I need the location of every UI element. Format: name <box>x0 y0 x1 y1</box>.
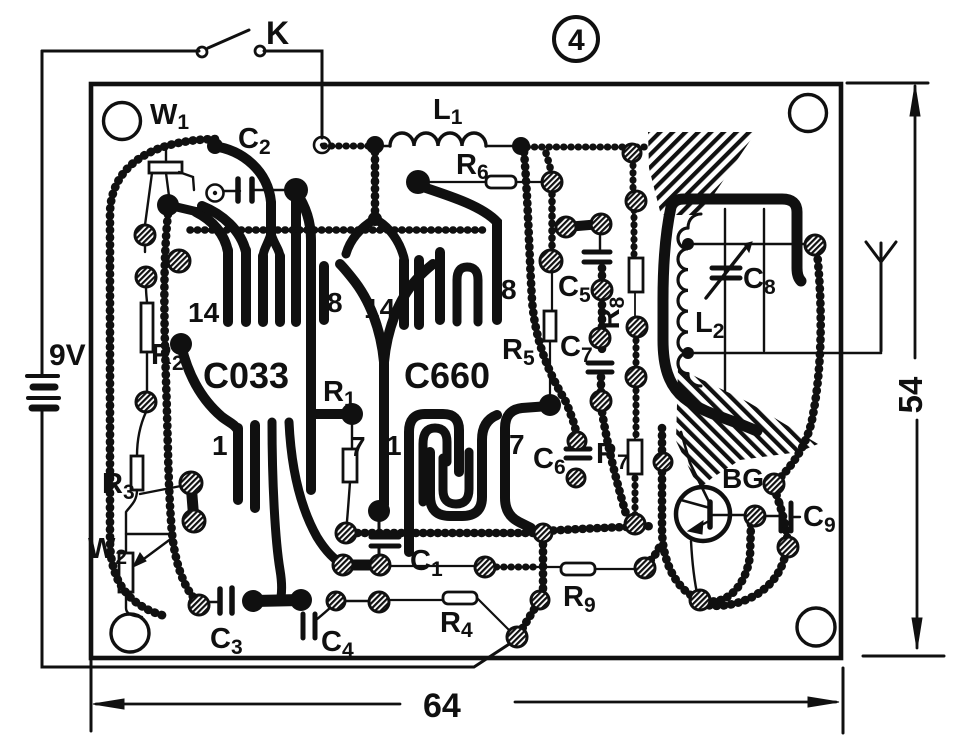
pad C2 arc start <box>207 138 223 154</box>
trace R6 pad to pin8 finger <box>420 186 497 320</box>
pad C4 elbow <box>327 592 345 610</box>
pad C5 bottom <box>592 280 612 300</box>
battery 9V <box>41 51 44 374</box>
pad R5 black <box>539 394 561 416</box>
trace Y of C660 <box>340 264 384 505</box>
svg-text:8: 8 <box>501 274 517 305</box>
pad pair C1 right <box>370 555 390 575</box>
pad R8 bottom <box>627 317 647 337</box>
pad rail top corner <box>623 144 641 162</box>
hatch fan below L2 <box>676 368 818 489</box>
capacitor C7 plates <box>588 363 612 372</box>
trace long bar between ICs <box>296 192 311 490</box>
dotted chain right edge down <box>777 252 821 481</box>
svg-text:C660: C660 <box>404 355 490 396</box>
pad C1 right junction <box>534 524 552 542</box>
svg-text:64: 64 <box>423 687 461 725</box>
svg-text:C033: C033 <box>203 355 289 396</box>
dotted BG inner U right <box>706 523 751 602</box>
wire battery bottom rail <box>42 410 517 667</box>
dotted BG inner U left <box>662 428 702 601</box>
trimmer W1 body <box>149 162 182 173</box>
svg-text:1: 1 <box>212 430 228 461</box>
dotted C5 C7 chain <box>601 268 626 514</box>
IC C033 top fingers pin14 side <box>223 250 233 322</box>
pad C6 top <box>568 432 586 450</box>
pad to pad link left mid <box>191 483 194 521</box>
trace L2 horseshoe <box>663 207 757 431</box>
trace corner at R5 pad <box>505 406 549 528</box>
pad below W1 <box>168 250 190 272</box>
transistor BG internals <box>707 502 713 527</box>
svg-text:14: 14 <box>364 293 396 324</box>
trace stub to R1 pad <box>313 409 349 419</box>
pad W1 left <box>135 225 155 245</box>
svg-text:1: 1 <box>386 430 402 461</box>
pad R1 bottom <box>336 523 356 543</box>
pad node above C660 <box>368 212 382 226</box>
pad C3 black <box>242 590 264 612</box>
pad L1 right black <box>512 137 530 155</box>
serpentine meander inner arch <box>423 428 447 502</box>
inverted U fingers <box>457 267 478 322</box>
trimmer W2 body <box>119 553 133 592</box>
pad BG base bottom <box>690 590 710 610</box>
wire battery top rail <box>42 50 199 53</box>
resistor R6 body <box>486 176 516 188</box>
circled figure number 4 <box>554 17 598 61</box>
IC C033 bottom fingers pin1 side <box>233 428 243 500</box>
pad L2 top <box>682 238 694 250</box>
pad C4 black <box>290 589 312 611</box>
pad R3 link lower <box>183 510 205 532</box>
pad below C1 chain <box>531 591 549 609</box>
mounting hole bottom-left <box>111 614 149 652</box>
pad L2 right <box>805 235 825 255</box>
coil L2 <box>678 228 688 374</box>
resistor R2 body <box>141 303 153 352</box>
thin frame around C8 <box>688 243 813 245</box>
switch K <box>197 47 207 57</box>
dotted rail top right of L1 <box>527 144 650 151</box>
resistor R9 body <box>561 563 595 575</box>
dotted BG outer arc <box>694 552 786 606</box>
dotted rail top from switch pad <box>324 143 370 150</box>
resistor R7 body <box>628 440 642 474</box>
capacitor C5 plates <box>584 252 610 262</box>
pad R2 lead <box>136 392 156 412</box>
pad C7 top <box>590 328 610 348</box>
junction fan from dotted node <box>375 219 404 258</box>
pad R3 link upper <box>180 472 202 494</box>
dotted from R9 right pad <box>645 543 661 565</box>
pad R8 top <box>626 191 646 211</box>
pad BG collector <box>745 506 765 526</box>
svg-text:7: 7 <box>350 431 366 462</box>
dotted rail mid horizontal <box>190 226 488 234</box>
serpentine meander outer arch <box>409 414 459 552</box>
pad R6 right <box>542 172 562 192</box>
capacitor C2 plates <box>238 179 252 201</box>
pad R2 black <box>170 333 192 355</box>
pad R6 left black <box>406 170 430 194</box>
pad R7 bottom <box>625 514 645 534</box>
dotted R8 line segments <box>633 158 636 518</box>
pad battery return <box>507 627 527 647</box>
coil L1 <box>390 133 486 146</box>
dotted drop from top rail <box>371 152 380 212</box>
trace dumbbell C3-C4 pads <box>253 600 301 601</box>
pad L2 bottom <box>682 347 694 359</box>
resistor R5 body <box>544 311 556 341</box>
finger left of Y <box>319 266 329 320</box>
hatch wedge top right <box>648 132 756 215</box>
pad BG chain lower <box>778 537 798 557</box>
capacitor C3 plates <box>220 588 232 613</box>
capacitor C4 plates <box>303 614 315 638</box>
PCB board outline <box>91 84 841 658</box>
dotted rail bottom mid <box>546 526 655 531</box>
pad W1 chain <box>136 267 156 287</box>
capacitor C1 plates <box>371 537 399 546</box>
resistor R3 body <box>131 456 143 490</box>
dotted link to R9 <box>489 564 540 571</box>
dotted rail under C1 <box>350 529 536 538</box>
trace C2 arc into IC fingers <box>213 146 271 236</box>
serpentine meander outer U <box>430 415 497 516</box>
dimension 54 right side <box>847 82 928 85</box>
pad L1 left black <box>366 136 384 154</box>
svg-text:14: 14 <box>188 297 220 328</box>
mounting hole bottom-right <box>797 608 835 646</box>
pad R9 right <box>635 558 655 578</box>
dotted loop outer left <box>110 139 215 616</box>
dotted BG collector chain <box>774 488 788 545</box>
pad W1 black <box>157 194 179 216</box>
trace feeders from W1 pads <box>196 212 228 252</box>
pad pair C1 left <box>333 555 353 575</box>
pad C2 black <box>284 178 308 202</box>
resistor R1 body <box>343 449 357 482</box>
wire L2 to antenna <box>688 352 881 355</box>
dotted drop to C6 <box>524 152 577 438</box>
svg-text:8: 8 <box>327 287 343 318</box>
pad C7 bottom <box>591 391 611 411</box>
pad C4 right <box>369 592 389 612</box>
resistor R8 body <box>629 258 643 292</box>
svg-text:BG: BG <box>722 463 764 494</box>
pad R9 left <box>475 557 495 577</box>
mounting hole top-right <box>790 95 827 132</box>
dotted chain inner left <box>164 214 198 602</box>
pad C5 link left <box>556 217 576 237</box>
dotted R5 upper chain <box>546 153 552 248</box>
pad C6 bottom <box>567 469 585 487</box>
pad BG inner chain <box>654 453 672 471</box>
antenna <box>866 242 896 351</box>
dotted C1 down chain <box>519 537 543 634</box>
finger right of Y <box>435 252 445 320</box>
pad R5 top <box>540 250 562 272</box>
pad R7 top <box>626 367 646 387</box>
mounting hole top-left <box>104 103 141 140</box>
pad BG chain upper <box>764 474 784 494</box>
IC C660 mouth fingers <box>399 260 409 325</box>
dimension 64 bottom <box>90 658 93 731</box>
wire switch to board <box>264 51 322 138</box>
pad C1 black <box>368 500 390 522</box>
pad R1 black <box>341 403 363 425</box>
pad C3 left <box>189 595 209 615</box>
transistor BG circle <box>676 487 730 541</box>
svg-text:9V: 9V <box>49 339 86 372</box>
svg-text:K: K <box>266 15 289 51</box>
capacitor C6 plates <box>566 449 590 458</box>
resistor R4 body <box>443 592 477 604</box>
thin link C5 pad pair <box>566 224 601 227</box>
svg-text:7: 7 <box>509 429 525 460</box>
trace pad pair near C1 <box>343 560 380 571</box>
svg-text:54: 54 <box>892 376 929 413</box>
pad C5 top <box>591 214 611 234</box>
capacitor C8 variable <box>712 268 740 278</box>
capacitor C9 plates <box>781 503 791 531</box>
svg-text:4: 4 <box>568 24 585 57</box>
serpentine meander inner U <box>443 452 469 504</box>
pad switch entry open <box>314 137 330 153</box>
trace R2 to bottom fingers <box>181 345 238 430</box>
